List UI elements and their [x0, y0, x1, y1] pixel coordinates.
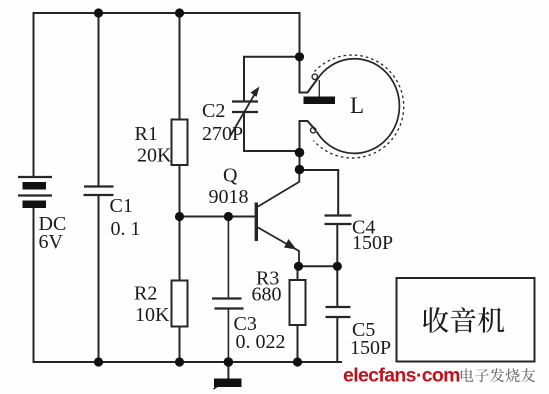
- wire tank top drop: [299, 13, 301, 93]
- node base C3: [224, 212, 233, 221]
- svg-text:Q: Q: [223, 165, 238, 187]
- node R2 bottom: [175, 357, 184, 366]
- svg-text:9018: 9018: [209, 186, 249, 208]
- battery B1 DC 6V: [18, 177, 66, 253]
- svg-text:0. 1: 0. 1: [111, 218, 141, 240]
- wire top supply rail: [34, 12, 300, 14]
- node R1 top: [175, 8, 184, 17]
- svg-text:R2: R2: [134, 283, 157, 305]
- wire R1 top lead: [179, 13, 181, 120]
- resistor R3 680: [252, 268, 306, 326]
- ground: [214, 379, 242, 390]
- wire C2 top branch: [244, 57, 300, 102]
- svg-text:20K: 20K: [137, 145, 172, 167]
- svg-text:6V: 6V: [39, 231, 64, 253]
- wire R3 top lead: [297, 266, 299, 280]
- svg-text:150P: 150P: [350, 337, 391, 359]
- wire R2 top lead: [179, 217, 181, 281]
- resistor R1 20K: [135, 120, 188, 167]
- wire R3 bottom lead: [297, 325, 299, 362]
- svg-text:C1: C1: [110, 195, 133, 217]
- wire C3 top lead: [227, 217, 229, 299]
- node C1 bottom: [94, 357, 103, 366]
- node base R1R2: [175, 212, 184, 221]
- wire R2 bottom lead: [179, 327, 181, 363]
- capacitor C5 150P: [326, 307, 392, 359]
- node ground: [224, 357, 234, 367]
- wire C4 bottom lead: [336, 224, 338, 266]
- svg-text:C2: C2: [202, 100, 225, 122]
- wire C1 top lead: [98, 13, 100, 187]
- wire C5 bottom lead: [336, 317, 338, 362]
- node C2 tap: [295, 52, 304, 61]
- watermark 电子发烧友: [461, 368, 535, 382]
- wire R1 bottom lead: [179, 165, 181, 217]
- wire battery top lead: [33, 13, 35, 177]
- svg-text:R1: R1: [135, 123, 158, 145]
- svg-text:10K: 10K: [135, 304, 170, 326]
- svg-text:150P: 150P: [352, 232, 393, 254]
- wire coil bottom lead: [300, 121, 316, 153]
- wire collector to C4: [300, 170, 339, 216]
- wire ground stub: [227, 362, 229, 378]
- wire base wire: [180, 216, 255, 218]
- node C4 C5: [333, 262, 342, 271]
- capacitor C3 0.022: [212, 299, 286, 354]
- wire coil top lead: [300, 80, 318, 93]
- radio receiver box 收音机: [397, 278, 535, 362]
- inductor L antenna coil: [304, 55, 404, 158]
- wire emitter row: [299, 265, 338, 267]
- svg-text:270P: 270P: [202, 123, 243, 145]
- wire C5 top lead: [336, 266, 338, 307]
- node emitter R3: [294, 262, 303, 271]
- variable capacitor C2 270P: [202, 87, 260, 146]
- wire C2 bottom branch: [244, 112, 300, 170]
- resistor R2 10K: [134, 281, 188, 327]
- capacitor C4 150P: [325, 216, 394, 255]
- capacitor C1 0.1: [84, 187, 141, 241]
- node tank bottom: [295, 148, 305, 158]
- svg-text:elecfans·com: elecfans·com: [343, 365, 460, 387]
- transistor Q 9018: [209, 165, 300, 267]
- svg-text:0. 022: 0. 022: [236, 331, 286, 353]
- svg-text:680: 680: [252, 284, 282, 306]
- node junction dots: [94, 8, 342, 366]
- svg-text:L: L: [350, 93, 364, 118]
- node R3 bottom: [293, 357, 302, 366]
- wire C1 bottom lead: [98, 195, 100, 362]
- wire battery bottom lead: [33, 208, 35, 362]
- wire C3 bottom lead: [227, 309, 229, 363]
- wire bottom ground rail: [34, 361, 342, 363]
- node collector: [295, 165, 305, 175]
- node C1 top: [94, 8, 103, 17]
